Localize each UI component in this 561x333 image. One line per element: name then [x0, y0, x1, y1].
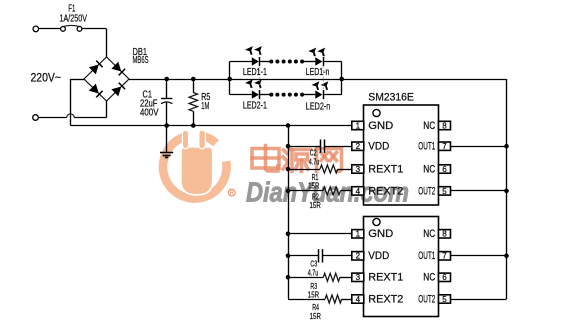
svg-text:OUT2: OUT2 [418, 293, 435, 305]
svg-text:NC: NC [423, 228, 435, 240]
svg-text:5: 5 [442, 187, 447, 196]
svg-text:1: 1 [356, 121, 361, 130]
svg-text:15R: 15R [308, 290, 319, 300]
svg-text:4.7u: 4.7u [308, 267, 319, 277]
svg-text:4: 4 [356, 295, 361, 304]
svg-text:7: 7 [442, 252, 447, 261]
svg-text:1M: 1M [201, 100, 209, 112]
svg-text:OUT2: OUT2 [418, 185, 435, 197]
svg-text:REXT2: REXT2 [368, 185, 403, 197]
svg-text:15R: 15R [310, 200, 321, 210]
svg-text:LED2-1: LED2-1 [243, 101, 267, 112]
svg-text:OUT1: OUT1 [418, 250, 435, 262]
svg-text:8: 8 [442, 230, 447, 239]
svg-text:3: 3 [356, 165, 361, 174]
svg-text:SM2316E: SM2316E [368, 92, 414, 104]
svg-text:GND: GND [368, 228, 393, 240]
svg-text:400V: 400V [140, 106, 159, 118]
svg-text:REXT1: REXT1 [368, 272, 403, 284]
svg-text:OUT1: OUT1 [418, 141, 435, 153]
svg-text:REXT2: REXT2 [368, 293, 403, 305]
svg-text:LED1-n: LED1-n [306, 67, 330, 78]
svg-text:NC: NC [423, 272, 435, 284]
svg-text:R: R [230, 191, 234, 197]
svg-text:MB6S: MB6S [133, 54, 149, 66]
svg-text:NC: NC [423, 120, 435, 132]
svg-text:7: 7 [442, 142, 447, 151]
svg-text:REXT1: REXT1 [368, 163, 403, 175]
svg-text:220V~: 220V~ [31, 73, 62, 85]
svg-text:VDD: VDD [368, 250, 389, 262]
svg-text:5: 5 [442, 295, 447, 304]
svg-text:VDD: VDD [368, 141, 389, 153]
svg-text:LED2-n: LED2-n [306, 102, 331, 113]
svg-text:1A/250V: 1A/250V [60, 13, 88, 25]
svg-text:4: 4 [356, 187, 361, 196]
svg-text:GND: GND [368, 120, 393, 132]
svg-text:4.7u: 4.7u [309, 156, 320, 166]
svg-text:2: 2 [356, 142, 361, 151]
svg-text:8: 8 [442, 121, 447, 130]
svg-text:NC: NC [423, 163, 435, 175]
svg-text:3: 3 [356, 273, 361, 282]
svg-text:15R: 15R [308, 181, 319, 191]
svg-text:15R: 15R [310, 311, 321, 321]
svg-text:2: 2 [356, 252, 361, 261]
svg-text:1: 1 [356, 230, 361, 239]
svg-text:LED1-1: LED1-1 [243, 67, 267, 78]
svg-text:6: 6 [442, 273, 447, 282]
svg-text:6: 6 [442, 165, 447, 174]
